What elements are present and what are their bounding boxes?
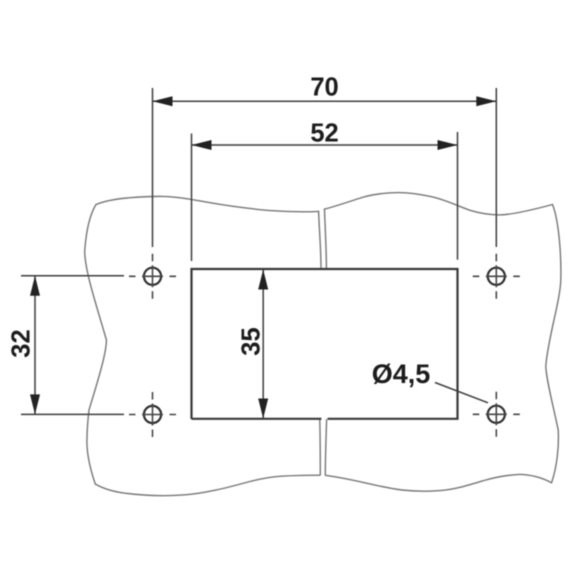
svg-text:32: 32 xyxy=(7,329,35,357)
svg-text:35: 35 xyxy=(238,327,266,355)
svg-text:52: 52 xyxy=(310,119,338,147)
svg-text:70: 70 xyxy=(310,74,338,102)
svg-text:Ø4,5: Ø4,5 xyxy=(372,359,431,389)
